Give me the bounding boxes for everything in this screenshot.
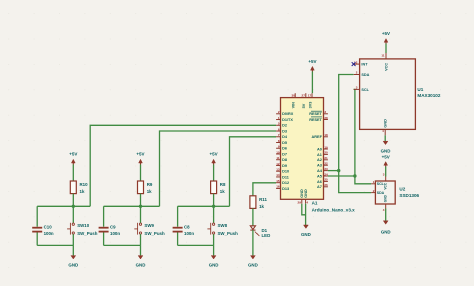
svg-text:+5V: +5V xyxy=(382,31,390,36)
svg-text:VCC: VCC xyxy=(384,182,388,189)
U1 left pin names xyxy=(361,63,369,92)
svg-text:D7: D7 xyxy=(282,152,287,156)
IC A1 left pin numbers xyxy=(276,110,280,189)
svg-text:SW9: SW9 xyxy=(144,223,154,228)
svg-text:R9: R9 xyxy=(147,182,153,187)
wire to IC pin xyxy=(90,125,276,206)
power +5V (R8 branch) xyxy=(210,152,218,165)
wire xyxy=(311,72,313,94)
svg-text:5V: 5V xyxy=(302,103,306,108)
svg-text:19: 19 xyxy=(324,145,328,149)
capacitor C10 xyxy=(32,206,54,245)
svg-text:RESET: RESET xyxy=(309,118,322,122)
svg-text:VIN: VIN xyxy=(292,102,296,109)
svg-text:100n: 100n xyxy=(184,231,194,236)
svg-text:SW_Push: SW_Push xyxy=(144,231,165,236)
wire xyxy=(140,165,142,182)
svg-text:D5: D5 xyxy=(282,141,287,145)
svg-text:+5V: +5V xyxy=(69,152,77,157)
svg-text:11: 11 xyxy=(276,156,280,160)
svg-text:21: 21 xyxy=(324,156,328,160)
svg-text:+5V: +5V xyxy=(210,152,218,157)
power +5V (R9 branch) xyxy=(136,152,144,165)
svg-text:1k: 1k xyxy=(80,189,85,194)
svg-text:+5V: +5V xyxy=(308,59,316,64)
svg-text:1k: 1k xyxy=(147,189,152,194)
U1 GND pin xyxy=(382,119,387,135)
resistor R10 xyxy=(70,181,88,194)
svg-text:1k: 1k xyxy=(220,189,225,194)
svg-text:26: 26 xyxy=(324,183,328,187)
capacitor C9 xyxy=(99,206,121,245)
pushbutton SW9 xyxy=(134,206,165,245)
svg-text:SW8: SW8 xyxy=(218,223,228,228)
U1 left pin stubs (INT,SDA,SCL) xyxy=(354,64,360,89)
U2 left pin stubs (SCL,SDA) xyxy=(371,184,375,193)
svg-text:16: 16 xyxy=(276,185,280,189)
wire A5 to SCL xyxy=(328,175,355,177)
resistor R11 xyxy=(250,196,268,209)
svg-text:17: 17 xyxy=(308,93,312,97)
svg-text:GND: GND xyxy=(68,262,78,267)
ground (SW10) xyxy=(68,245,78,267)
svg-text:100n: 100n xyxy=(110,231,120,236)
power +5V (R10 branch) xyxy=(69,152,77,165)
IC U1 MAX30102 body xyxy=(360,59,441,129)
IC A1 bottom pin numbers xyxy=(298,201,309,205)
svg-text:A7: A7 xyxy=(317,185,322,189)
wire xyxy=(214,205,230,207)
svg-text:24: 24 xyxy=(324,172,328,176)
svg-text:11: 11 xyxy=(381,54,385,58)
wire xyxy=(72,194,74,207)
svg-text:D13: D13 xyxy=(282,187,289,191)
svg-text:SDA: SDA xyxy=(377,191,385,195)
IC A1 top pin names xyxy=(292,102,313,109)
svg-text:A3: A3 xyxy=(317,164,322,168)
svg-text:3V3: 3V3 xyxy=(308,102,312,109)
pushbutton SW8 xyxy=(207,206,238,245)
svg-text:GND: GND xyxy=(248,262,258,267)
svg-text:GND: GND xyxy=(384,194,388,202)
pushbutton SW10 xyxy=(67,206,98,245)
ground (SW9) xyxy=(136,245,146,267)
svg-text:27: 27 xyxy=(302,93,306,97)
wire SDA net xyxy=(339,75,372,193)
wire to IC pin xyxy=(160,131,277,206)
node junction (R9/SW9) xyxy=(139,205,142,208)
svg-text:D6: D6 xyxy=(282,147,287,151)
resistor R8 xyxy=(211,181,226,194)
svg-text:MAX30102: MAX30102 xyxy=(417,93,440,98)
svg-text:SW_Push: SW_Push xyxy=(218,231,239,236)
IC A1 top pin stubs (VIN,5V,3V3) xyxy=(295,93,312,97)
node SCL junction xyxy=(353,174,356,177)
svg-text:GND: GND xyxy=(209,262,219,267)
U2 left pin names xyxy=(377,182,385,195)
svg-text:D11: D11 xyxy=(282,175,289,179)
svg-text:INT: INT xyxy=(361,63,368,67)
svg-text:D2: D2 xyxy=(282,124,287,128)
svg-text:GND: GND xyxy=(384,119,388,128)
U2 left pin numbers xyxy=(373,180,375,193)
ground (D1) xyxy=(248,256,258,268)
IC A1 top pin numbers xyxy=(291,93,311,97)
svg-text:28: 28 xyxy=(324,116,328,120)
node junction (R10/SW10) xyxy=(72,205,75,208)
wire xyxy=(37,244,73,246)
svg-text:U2: U2 xyxy=(399,187,405,192)
wire xyxy=(213,165,215,182)
svg-text:A5: A5 xyxy=(317,174,322,178)
power +5V (U2) xyxy=(382,154,390,166)
svg-text:RESET: RESET xyxy=(309,112,322,116)
wire xyxy=(385,209,387,221)
svg-text:R8: R8 xyxy=(220,182,226,187)
IC A1 right pin numbers xyxy=(324,110,328,187)
U2 VCC pin xyxy=(383,173,388,190)
svg-text:10: 10 xyxy=(276,150,280,154)
svg-text:SW10: SW10 xyxy=(77,223,90,228)
IC A1 right pin names RESET/AREF/A0-A7 xyxy=(309,111,323,189)
wire xyxy=(141,205,160,207)
ground (SW8) xyxy=(209,245,219,267)
svg-text:GND: GND xyxy=(381,229,391,234)
LED D1 xyxy=(250,226,270,238)
ground (IC A1) xyxy=(301,225,311,237)
wire xyxy=(104,205,141,207)
svg-text:12: 12 xyxy=(276,162,280,166)
wire xyxy=(252,208,254,225)
svg-text:D8: D8 xyxy=(282,158,287,162)
svg-text:A2: A2 xyxy=(317,158,322,162)
wire xyxy=(140,194,142,207)
svg-text:R11: R11 xyxy=(259,197,267,202)
svg-text:C10: C10 xyxy=(44,225,53,230)
wire xyxy=(37,205,73,207)
wire xyxy=(104,244,141,246)
node SDA junction xyxy=(337,169,340,172)
ground (U1) xyxy=(381,141,391,153)
wire xyxy=(178,205,214,207)
IC A1 right pin stubs xyxy=(324,114,328,187)
svg-text:SSD1306: SSD1306 xyxy=(399,193,419,198)
svg-text:A6: A6 xyxy=(317,180,322,184)
svg-text:15: 15 xyxy=(276,179,280,183)
svg-text:U1: U1 xyxy=(417,87,423,92)
wire A4 to SDA xyxy=(328,170,339,172)
svg-text:GND: GND xyxy=(301,232,311,237)
IC A1 left pin names D0-D13 xyxy=(282,112,294,191)
wire xyxy=(385,167,387,177)
wire to IC pin xyxy=(230,137,277,207)
wire xyxy=(72,165,74,182)
U1 VCC pin xyxy=(381,53,388,71)
IC A1 Arduino Nano body xyxy=(281,98,356,213)
svg-text:VCC: VCC xyxy=(384,63,388,71)
svg-text:GND: GND xyxy=(304,189,308,198)
power +5V (U1) xyxy=(382,31,390,44)
wire SCL net xyxy=(354,89,372,183)
svg-text:D12: D12 xyxy=(282,181,289,185)
wire xyxy=(73,205,90,207)
wire GND loop xyxy=(302,204,306,225)
IC A1 bottom pin stubs (GND,GND) xyxy=(302,199,306,203)
svg-text:D0/RX: D0/RX xyxy=(282,112,294,116)
svg-text:1k: 1k xyxy=(259,204,264,209)
IC A1 bottom pin names xyxy=(300,189,308,198)
svg-text:30: 30 xyxy=(291,93,295,97)
IC A1 left pin stubs xyxy=(276,114,280,189)
wire xyxy=(384,135,386,141)
svg-text:GND: GND xyxy=(136,262,146,267)
svg-text:+5V: +5V xyxy=(382,154,390,159)
svg-text:A1: A1 xyxy=(317,153,322,157)
svg-text:R10: R10 xyxy=(80,182,89,187)
power +5V (IC A1) xyxy=(308,59,316,72)
U2 GND pin xyxy=(383,194,388,212)
svg-text:SDA: SDA xyxy=(361,73,369,77)
svg-text:25: 25 xyxy=(324,178,328,182)
svg-text:D9: D9 xyxy=(282,164,287,168)
U1 INT no-connect X xyxy=(352,62,356,66)
node junction (R8/SW8) xyxy=(212,205,215,208)
svg-text:SW_Push: SW_Push xyxy=(77,231,98,236)
wire xyxy=(385,44,387,54)
svg-text:+5V: +5V xyxy=(136,152,144,157)
svg-text:SCL: SCL xyxy=(361,88,369,92)
svg-text:20: 20 xyxy=(324,151,328,155)
svg-text:23: 23 xyxy=(324,167,328,171)
svg-text:D10: D10 xyxy=(282,170,289,174)
svg-text:Arduino_Nano_v3.x: Arduino_Nano_v3.x xyxy=(312,207,356,212)
svg-text:22: 22 xyxy=(324,162,328,166)
IC U2 SSD1306 body xyxy=(375,181,419,204)
U1 left pin numbers xyxy=(354,60,358,89)
ground (U2) xyxy=(381,221,391,235)
svg-text:C9: C9 xyxy=(110,225,116,230)
svg-text:29: 29 xyxy=(298,201,302,205)
wire xyxy=(213,194,215,207)
svg-text:D3: D3 xyxy=(282,129,287,133)
resistor R9 xyxy=(138,181,153,194)
svg-text:A1: A1 xyxy=(312,200,318,205)
svg-text:14: 14 xyxy=(276,173,280,177)
svg-text:18: 18 xyxy=(324,133,328,137)
svg-text:13: 13 xyxy=(276,168,280,172)
wire xyxy=(252,230,254,256)
wire xyxy=(178,244,214,246)
svg-text:LED: LED xyxy=(262,233,271,238)
svg-text:D1/TX: D1/TX xyxy=(282,118,293,122)
svg-text:100n: 100n xyxy=(44,231,54,236)
svg-text:A0: A0 xyxy=(317,147,322,151)
capacitor C8 xyxy=(173,206,195,245)
svg-text:GND: GND xyxy=(381,149,391,154)
svg-text:AREF: AREF xyxy=(312,135,323,139)
wire D12 net xyxy=(253,183,276,196)
svg-text:C8: C8 xyxy=(184,225,190,230)
